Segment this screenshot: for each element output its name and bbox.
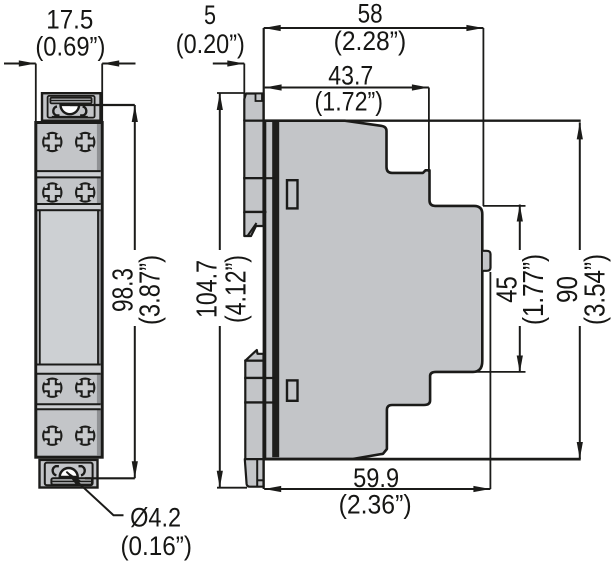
bottom mounting clip (front view) with hole (40, 460, 98, 488)
mounting plane line / 58-59.9 left extension (263, 28, 265, 489)
DIN clip top foot (side view) (244, 94, 263, 121)
top mounting clip (front view) (42, 93, 101, 121)
terminal screw S6 (75, 378, 95, 398)
svg-text:(0.20”): (0.20”) (176, 29, 245, 59)
svg-text:(1.72”): (1.72”) (315, 86, 384, 116)
svg-text:(0.16”): (0.16”) (120, 531, 192, 561)
svg-text:(2.28”): (2.28”) (334, 26, 407, 56)
terminal screw S4 (75, 182, 95, 202)
side view module body profile (265, 121, 482, 459)
dimension 104.7 (4.12") total height (191, 93, 252, 488)
svg-text:(3.87”): (3.87”) (134, 255, 166, 325)
svg-text:58: 58 (358, 0, 383, 28)
terminal screw S7 (42, 426, 62, 446)
side panel slot (upper) (287, 180, 298, 208)
terminal screw S1 (42, 132, 62, 152)
dimension 45 (1.77") (471, 205, 550, 373)
front divider band 3 (36, 365, 101, 374)
svg-text:59.9: 59.9 (353, 463, 399, 493)
dimension 17.5 (0.69") width of front view (4, 4, 136, 121)
DIN clip bottom hook (side view) (245, 350, 263, 361)
body bottom edge line (90 bottom reference) (245, 458, 581, 461)
terminal screw S5 (42, 378, 62, 398)
terminal screw S3 (42, 182, 62, 202)
side panel slot (lower) (287, 380, 298, 400)
svg-text:Ø4.2: Ø4.2 (130, 503, 181, 533)
svg-text:(0.69”): (0.69”) (35, 31, 105, 61)
front divider band 1 (36, 171, 101, 177)
front view module body (36, 123, 102, 458)
DIN clip bottom foot (side view) (245, 459, 264, 487)
dimension 59.9 (2.36") (264, 272, 490, 520)
terminal screw S8 (75, 426, 95, 446)
dimension 98.3 (3.87") height of front view (70, 105, 166, 478)
front divider band 2 (36, 204, 101, 210)
body top edge line (90 top reference) (247, 119, 581, 121)
DIN clip bottom slide (side view) (245, 361, 274, 459)
dimension 43.7 (1.72") (265, 60, 429, 172)
svg-text:(1.77”): (1.77”) (518, 254, 550, 325)
front label panel (40, 210, 98, 364)
svg-text:(4.12”): (4.12”) (221, 255, 253, 323)
svg-text:5: 5 (204, 0, 216, 30)
svg-text:(2.36”): (2.36”) (339, 490, 412, 520)
dimension 5 (0.20") clip depth (176, 0, 245, 98)
dark back edge band of side body (272, 122, 279, 457)
svg-text:104.7: 104.7 (191, 260, 223, 318)
front divider band 4 (36, 404, 101, 409)
front face protrusion (59.9 extent) (483, 251, 491, 271)
DIN clip top slide (side view) (244, 121, 274, 236)
svg-text:17.5: 17.5 (46, 4, 93, 34)
leader and label &#216;4.2 (0.16") mounting hole (66, 471, 192, 561)
dimension 58 (2.28") total depth (264, 0, 484, 206)
dimension 90 (3.54") (552, 122, 612, 459)
terminal screw S2 (75, 132, 95, 152)
svg-text:(3.54”): (3.54”) (580, 254, 612, 325)
